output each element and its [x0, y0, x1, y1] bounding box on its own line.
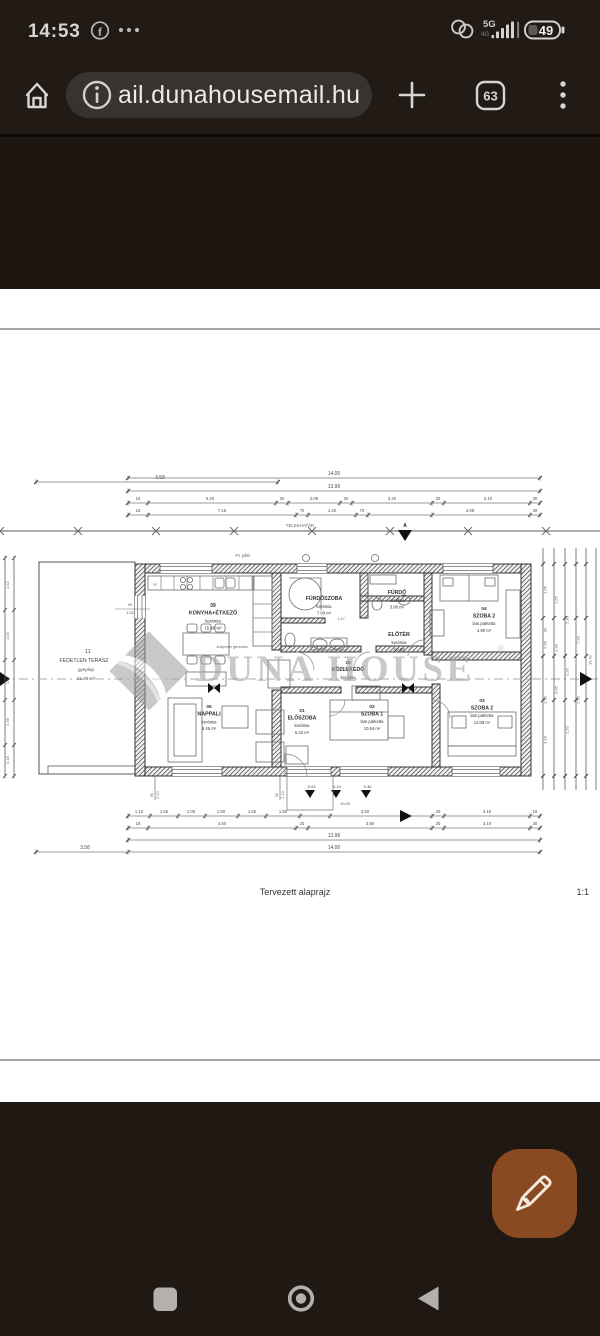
svg-text:ail.dunahousemail.hu: ail.dunahousemail.hu — [118, 81, 360, 109]
svg-text:P1 pillér: P1 pillér — [235, 553, 251, 558]
svg-text:A: A — [403, 523, 407, 529]
svg-text:2.30: 2.30 — [565, 615, 570, 624]
svg-text:kerámia: kerámia — [390, 598, 406, 603]
svg-text:02: 02 — [369, 704, 375, 710]
svg-text:SZOBA 2: SZOBA 2 — [471, 705, 493, 711]
svg-text:30: 30 — [533, 508, 538, 513]
svg-text:FÜRDŐSZOBA: FÜRDŐSZOBA — [306, 595, 343, 602]
svg-text:®: ® — [497, 644, 505, 655]
svg-text:15: 15 — [533, 809, 538, 814]
svg-text:7.00 m²: 7.00 m² — [317, 611, 332, 616]
svg-text:KONYHA+ÉTKEZŐ: KONYHA+ÉTKEZŐ — [189, 609, 237, 617]
svg-text:12.08 m²: 12.08 m² — [474, 720, 491, 725]
svg-text:4.90 m²: 4.90 m² — [477, 628, 492, 633]
svg-text:5G: 5G — [483, 19, 496, 30]
svg-text:gyeplap: gyeplap — [78, 667, 95, 672]
svg-text:21.48 m²: 21.48 m² — [77, 676, 96, 681]
svg-text:FÜRDŐ: FÜRDŐ — [388, 589, 406, 596]
svg-text:2.45: 2.45 — [543, 640, 548, 649]
svg-text:2.50: 2.50 — [576, 695, 581, 704]
svg-text:DUNA HOUSE: DUNA HOUSE — [196, 649, 475, 690]
svg-text:30: 30 — [533, 496, 538, 501]
svg-text:70: 70 — [360, 508, 365, 513]
svg-text:Tervezett alaprajz: Tervezett alaprajz — [260, 887, 331, 897]
svg-text:TELEKHATÁR: TELEKHATÁR — [286, 523, 314, 528]
svg-text:14:53: 14:53 — [28, 21, 81, 42]
svg-text:1.65: 1.65 — [248, 809, 257, 814]
svg-text:4.08: 4.08 — [466, 508, 475, 513]
svg-text:90: 90 — [275, 793, 279, 797]
svg-text:1.47: 1.47 — [337, 616, 346, 621]
svg-text:lam.parketta: lam.parketta — [470, 713, 494, 718]
svg-text:1.55: 1.55 — [554, 595, 559, 604]
svg-text:30: 30 — [543, 627, 548, 632]
svg-text:2.08: 2.08 — [310, 496, 319, 501]
svg-text:20: 20 — [436, 496, 441, 501]
svg-text:14.00: 14.00 — [328, 471, 341, 477]
svg-text:ELŐSZOBA: ELŐSZOBA — [288, 714, 317, 721]
svg-text:3.80: 3.80 — [366, 821, 375, 826]
svg-text:30: 30 — [533, 821, 538, 826]
svg-text:1:1: 1:1 — [576, 887, 589, 897]
svg-text:7.30: 7.30 — [576, 635, 581, 644]
svg-text:kerámia: kerámia — [392, 640, 408, 645]
svg-text:2.20: 2.20 — [565, 667, 570, 676]
svg-text:1.40: 1.40 — [328, 508, 337, 513]
svg-text:20: 20 — [300, 821, 305, 826]
svg-text:90: 90 — [128, 603, 132, 607]
svg-text:SZOBA 1: SZOBA 1 — [361, 711, 383, 717]
svg-text:11: 11 — [85, 649, 91, 655]
svg-text:15: 15 — [136, 821, 141, 826]
svg-text:15: 15 — [136, 496, 141, 501]
svg-text:10.64 m²: 10.64 m² — [364, 726, 381, 731]
svg-text:f: f — [98, 25, 103, 39]
svg-text:20: 20 — [344, 496, 349, 501]
svg-text:63: 63 — [483, 89, 497, 104]
svg-text:lam.parketta: lam.parketta — [360, 719, 384, 724]
svg-text:1.10: 1.10 — [135, 809, 144, 814]
svg-text:-0.36: -0.36 — [363, 785, 372, 789]
svg-text:03: 03 — [479, 698, 485, 704]
svg-text:SZOBA 2: SZOBA 2 — [473, 613, 495, 619]
svg-text:3.10: 3.10 — [484, 496, 493, 501]
svg-text:kerámia: kerámia — [205, 619, 221, 624]
svg-text:1.05: 1.05 — [5, 631, 10, 640]
svg-text:14.00: 14.00 — [328, 845, 341, 851]
svg-text:0.19: 0.19 — [333, 785, 340, 789]
svg-text:3.10: 3.10 — [483, 821, 492, 826]
svg-text:5.20: 5.20 — [206, 496, 215, 501]
svg-text:ELŐTÉR: ELŐTÉR — [388, 630, 410, 638]
svg-text:1.17: 1.17 — [5, 675, 10, 684]
svg-text:8.46 m²: 8.46 m² — [202, 726, 217, 731]
svg-text:04: 04 — [481, 606, 487, 612]
svg-text:2.10: 2.10 — [156, 791, 160, 798]
svg-text:3.58: 3.58 — [80, 845, 90, 851]
svg-text:05: 05 — [206, 704, 212, 710]
svg-text:±0.00: ±0.00 — [340, 802, 349, 806]
svg-text:1.00: 1.00 — [187, 809, 196, 814]
svg-text:3.50: 3.50 — [361, 809, 370, 814]
svg-text:kerámia: kerámia — [295, 723, 311, 728]
svg-text:09: 09 — [210, 603, 216, 609]
svg-text:90: 90 — [150, 793, 154, 797]
svg-text:1.55: 1.55 — [543, 585, 548, 594]
svg-text:1.52: 1.52 — [126, 611, 133, 615]
svg-text:2.50: 2.50 — [565, 725, 570, 734]
svg-text:49: 49 — [539, 23, 553, 38]
svg-text:20: 20 — [436, 821, 441, 826]
svg-text:1.55: 1.55 — [160, 809, 169, 814]
svg-text:1.90: 1.90 — [279, 809, 288, 814]
svg-text:1.50: 1.50 — [543, 695, 548, 704]
svg-text:3.90 m²: 3.90 m² — [390, 605, 405, 610]
svg-text:1.90: 1.90 — [217, 809, 226, 814]
svg-text:01: 01 — [299, 708, 305, 714]
svg-text:FEDETLEN TERASZ: FEDETLEN TERASZ — [60, 658, 109, 664]
svg-text:13.96: 13.96 — [328, 484, 341, 490]
svg-text:2.46: 2.46 — [5, 717, 10, 726]
svg-text:5.32 m²: 5.32 m² — [295, 730, 310, 735]
svg-text:20: 20 — [280, 496, 285, 501]
svg-text:15: 15 — [136, 508, 141, 513]
svg-text:3.18: 3.18 — [543, 735, 548, 744]
svg-text:4.15: 4.15 — [483, 809, 492, 814]
svg-text:kerámia: kerámia — [317, 604, 333, 609]
svg-text:70: 70 — [300, 508, 305, 513]
svg-text:7.15: 7.15 — [218, 508, 227, 513]
svg-text:kerámia: kerámia — [202, 719, 218, 724]
svg-text:1.30: 1.30 — [554, 643, 559, 652]
svg-text:3.18: 3.18 — [5, 755, 10, 764]
svg-text:lam.parketta: lam.parketta — [472, 621, 496, 626]
svg-text:1.52: 1.52 — [5, 580, 10, 589]
svg-text:20: 20 — [436, 809, 441, 814]
svg-text:15.48 m²: 15.48 m² — [204, 626, 222, 631]
svg-text:3.05: 3.05 — [554, 685, 559, 694]
svg-text:H: H — [153, 582, 156, 587]
svg-text:10.42: 10.42 — [588, 654, 593, 665]
svg-text:NAPPALI: NAPPALI — [197, 711, 221, 717]
svg-text:13.96: 13.96 — [328, 833, 341, 839]
svg-text:4G: 4G — [481, 32, 489, 38]
svg-text:-0.03: -0.03 — [307, 785, 316, 789]
svg-text:2.10: 2.10 — [281, 791, 285, 798]
svg-text:3.40: 3.40 — [388, 496, 397, 501]
svg-text:4.50: 4.50 — [218, 821, 227, 826]
